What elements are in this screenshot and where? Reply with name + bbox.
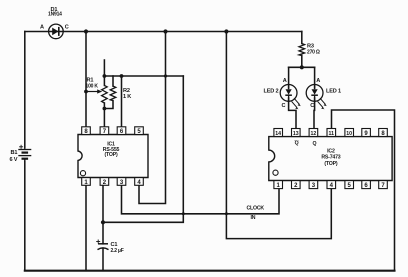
- junction threshold rail / pin4 riser crossing: [164, 74, 167, 77]
- wire C1 bottom to ground rail: [102, 249, 104, 271]
- svg-text:C: C: [310, 103, 314, 109]
- svg-text:IN: IN: [251, 215, 256, 221]
- wire Vcc drop to IC1 pin 8: [85, 32, 87, 127]
- IC2 pin 9: [362, 129, 371, 137]
- svg-text:RS-7473: RS-7473: [321, 155, 340, 161]
- svg-text:1N914: 1N914: [48, 12, 62, 18]
- svg-text:IC2: IC2: [327, 149, 335, 155]
- svg-text:11: 11: [329, 131, 335, 137]
- svg-text:LED 1: LED 1: [326, 89, 341, 95]
- svg-text:Q: Q: [312, 141, 316, 147]
- wire R1 bottom to IC1 pin 7: [103, 103, 105, 127]
- wire IC1 pin 2 drop to C1: [102, 185, 104, 244]
- svg-text:A: A: [40, 25, 44, 31]
- IC2 pin 4: [327, 181, 336, 189]
- IC2 pin 12: [309, 129, 318, 137]
- resistor R1 (100K potentiometer): [102, 85, 108, 103]
- IC2 pin 13: [292, 129, 301, 137]
- IC2 pin 7: [379, 181, 388, 189]
- junction wiper arrow base: [84, 90, 88, 94]
- LED LED2: [280, 85, 301, 110]
- wire R2 bottom jog to R1 line: [104, 101, 113, 109]
- IC1 pin 8: [82, 127, 91, 135]
- wire R1 top stub: [103, 60, 105, 85]
- LED LED1: [306, 85, 327, 110]
- wire LED2 anode lead: [288, 67, 290, 88]
- capacitor C1: [96, 240, 108, 250]
- IC2 pin 14: [274, 129, 283, 137]
- junction R3 bottom / LED rail: [300, 65, 304, 69]
- resistor R2: [110, 86, 116, 101]
- wire IC1 pin 6 drop: [121, 76, 123, 127]
- wire clock line IC1 pin3 to IC2 pin1: [122, 185, 280, 214]
- wire left battery branch upper: [24, 32, 26, 148]
- battery B1: [18, 145, 31, 162]
- junction clock line crossing IC2 Vcc drop: [225, 212, 228, 215]
- svg-text:CLOCK: CLOCK: [247, 206, 265, 212]
- diode D1: [49, 24, 64, 39]
- wire R2 top stub: [112, 76, 114, 86]
- svg-text:(TOP): (TOP): [104, 152, 117, 158]
- IC2 pin 3: [309, 181, 318, 189]
- junction top rail / IC2 Vcc drop: [224, 29, 228, 33]
- resistor R3: [299, 44, 305, 56]
- svg-text:100 K: 100 K: [86, 84, 99, 90]
- junction clock line crossing tie line: [182, 212, 185, 215]
- IC2 pin 8: [379, 129, 388, 137]
- svg-text:270 Ω: 270 Ω: [307, 49, 320, 55]
- wire LED2 cathode jog to IC2 pin 13: [289, 98, 296, 128]
- IC2 pin 1: [274, 181, 283, 189]
- svg-text:C: C: [282, 103, 286, 109]
- svg-text:C: C: [65, 25, 69, 31]
- svg-text:12: 12: [311, 131, 317, 137]
- junction threshold rail / R1 line: [103, 74, 107, 78]
- wire Vcc drop to IC2 pin 4: [226, 32, 331, 239]
- IC IC1 RS-555 body: [78, 135, 148, 178]
- wire Vcc riser to IC1 pin 4: [139, 32, 166, 204]
- IC2 pin 5: [345, 181, 354, 189]
- svg-text:LED 2: LED 2: [264, 89, 279, 95]
- svg-text:13: 13: [293, 131, 299, 137]
- IC2 pin 2: [292, 181, 301, 189]
- junction threshold rail / pin6 drop: [120, 74, 124, 78]
- svg-text:10: 10: [346, 131, 352, 137]
- svg-text:B1: B1: [11, 150, 18, 156]
- wire LED1 cathode to IC2 pin 12: [313, 98, 316, 128]
- wire threshold rail (R1/R2/pin6): [104, 75, 183, 77]
- svg-text:Q: Q: [295, 141, 299, 147]
- IC1 pin 7: [100, 127, 109, 135]
- wire LED1 anode lead: [314, 67, 316, 88]
- IC1 pin 6: [117, 127, 126, 135]
- IC1 pin 3: [117, 178, 126, 186]
- junction pin2 / C1 / tie line: [101, 220, 105, 224]
- svg-text:2.2 µF: 2.2 µF: [111, 248, 124, 254]
- IC2 pin 10: [345, 129, 354, 137]
- wiper arrow of R1: [86, 89, 102, 93]
- junction top rail / pin8 drop: [84, 29, 88, 33]
- wire top Vcc rail: [25, 31, 302, 33]
- IC2 pin 6: [362, 181, 371, 189]
- junction R1 line / R2 bottom: [103, 107, 107, 111]
- junction top rail / pin4 riser: [163, 29, 167, 33]
- svg-text:(TOP): (TOP): [324, 161, 337, 167]
- IC1 pin 1: [82, 178, 91, 186]
- svg-text:6 V: 6 V: [10, 157, 18, 163]
- IC IC2 RS-7473 body: [269, 137, 392, 181]
- wire pin2-pin6 tie line: [103, 76, 183, 222]
- svg-text:1 K: 1 K: [123, 94, 131, 100]
- wire LED anode rail: [289, 66, 315, 68]
- wire IC1 pin 1 to ground rail: [85, 185, 87, 270]
- svg-text:14: 14: [275, 131, 281, 137]
- wire R3 bottom lead: [301, 56, 303, 68]
- wire bottom ground rail: [25, 270, 395, 272]
- IC1 pin 4: [135, 178, 144, 186]
- IC1 pin 2: [100, 178, 109, 186]
- IC2 pin 11: [327, 129, 336, 137]
- wire top rail corner into R3: [301, 32, 303, 44]
- svg-text:A: A: [283, 78, 287, 84]
- svg-text:A: A: [316, 78, 320, 84]
- wire left battery branch lower: [24, 162, 26, 271]
- IC1 pin 5: [135, 127, 144, 135]
- wire right side ground riser from IC2 pin 11: [332, 110, 395, 271]
